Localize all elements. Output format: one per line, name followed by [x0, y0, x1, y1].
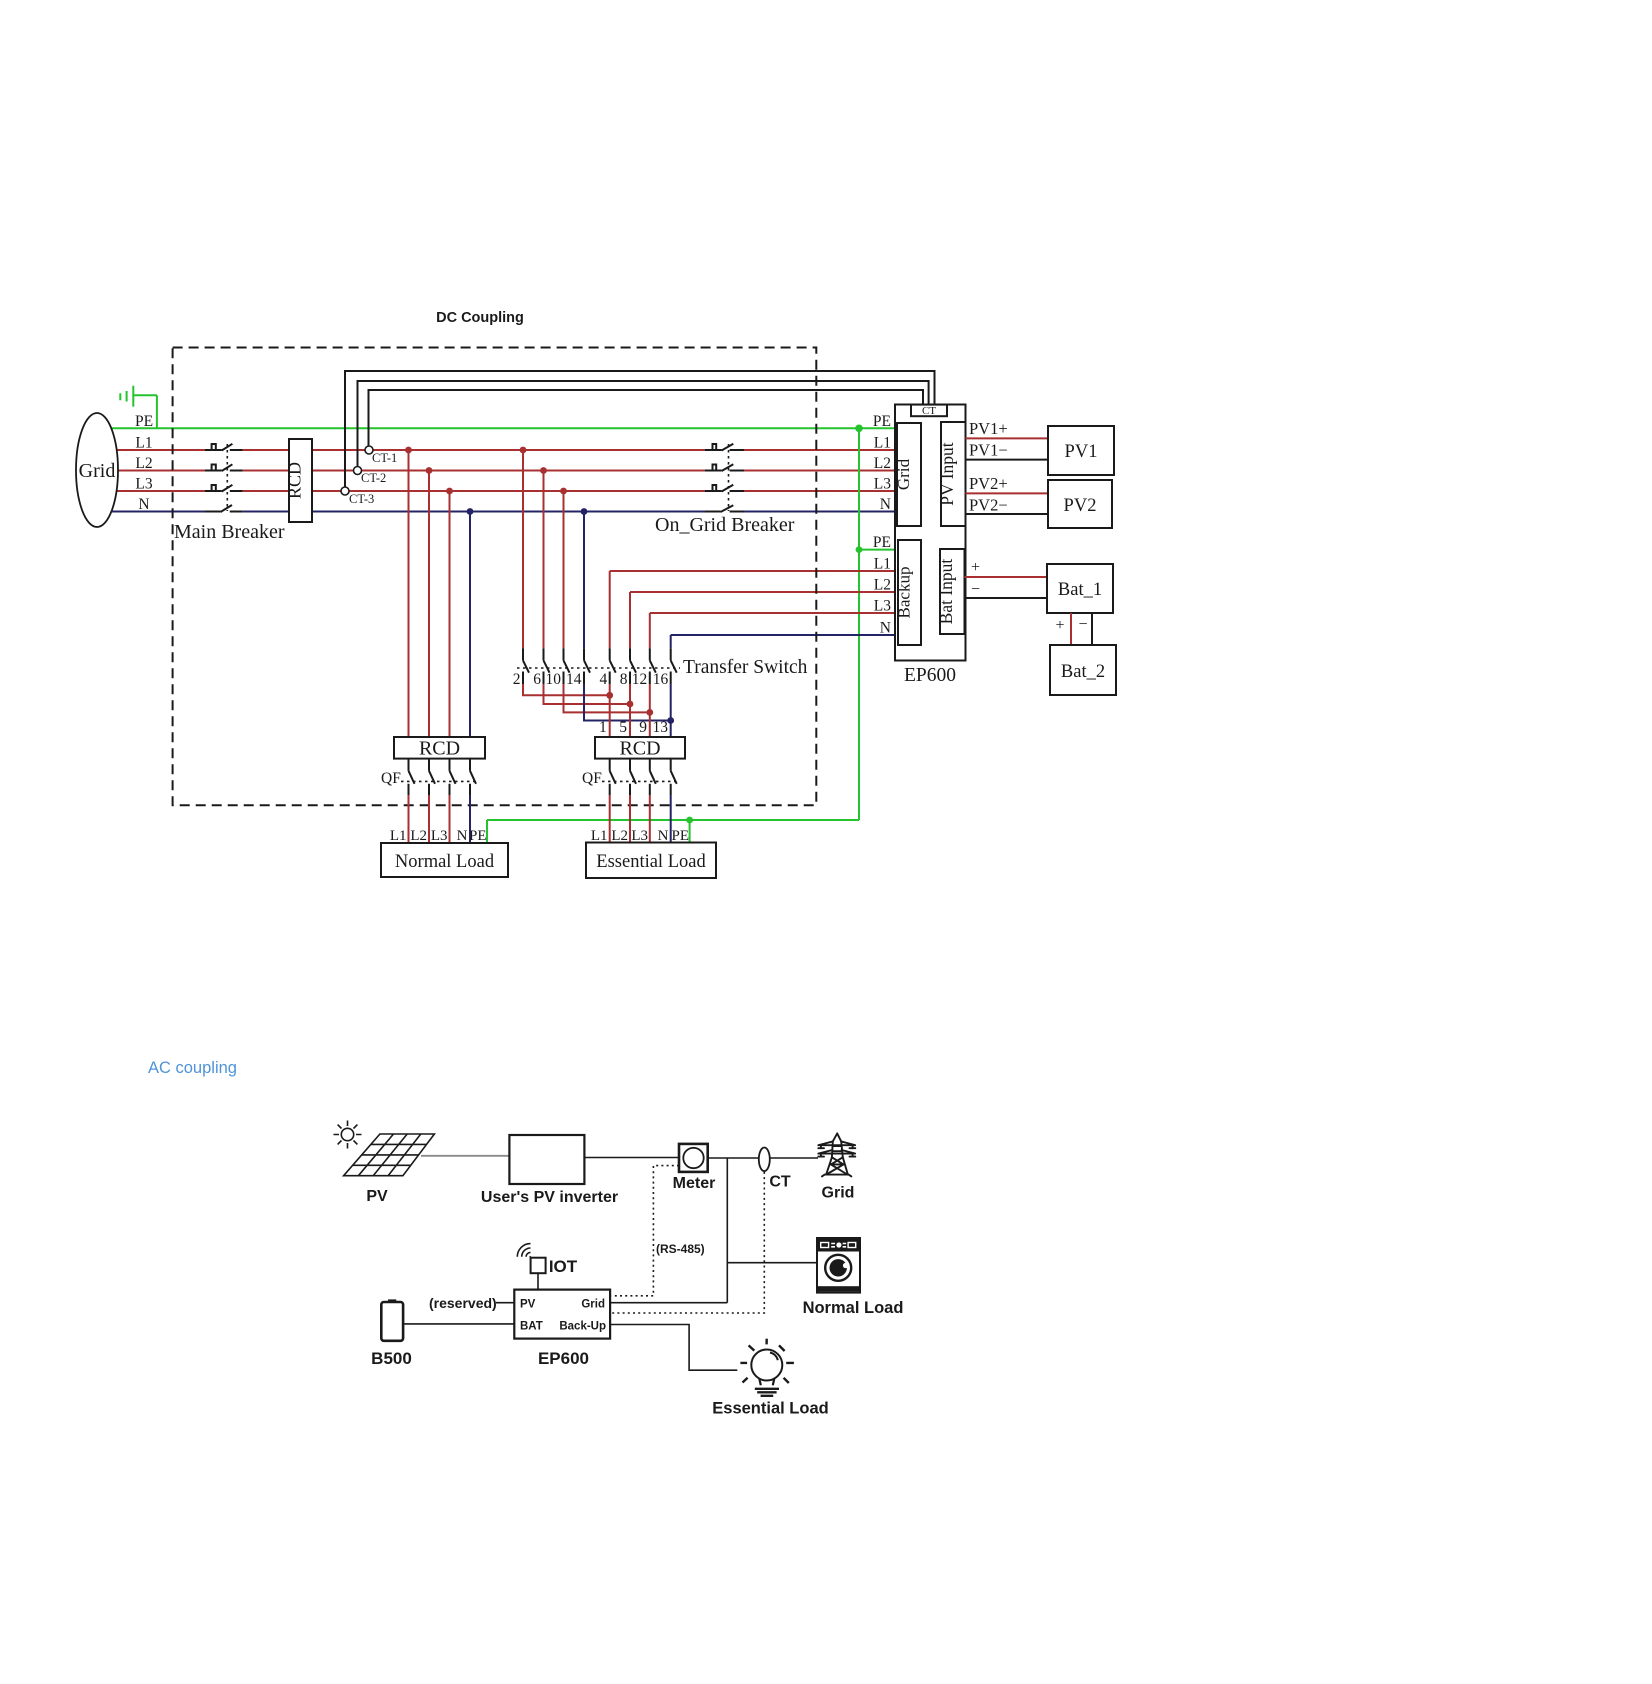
- svg-text:L1: L1: [135, 435, 152, 452]
- svg-text:13: 13: [653, 719, 669, 736]
- svg-text:PV Input: PV Input: [937, 442, 957, 506]
- svg-text:10: 10: [546, 671, 562, 688]
- svg-text:N: N: [138, 496, 149, 513]
- svg-text:L3: L3: [431, 828, 448, 844]
- svg-text:L2: L2: [410, 828, 427, 844]
- svg-text:Grid: Grid: [79, 460, 116, 482]
- svg-text:L1: L1: [874, 435, 891, 452]
- svg-text:Transfer Switch: Transfer Switch: [683, 657, 808, 678]
- svg-text:L2: L2: [874, 455, 891, 472]
- svg-text:1: 1: [599, 719, 607, 736]
- svg-text:RCD: RCD: [285, 462, 305, 499]
- svg-text:Bat_1: Bat_1: [1058, 580, 1102, 600]
- svg-text:(reserved): (reserved): [429, 1295, 497, 1311]
- svg-text:L3: L3: [135, 476, 152, 493]
- svg-text:B500: B500: [371, 1349, 412, 1368]
- svg-text:L2: L2: [874, 577, 891, 594]
- svg-text:PV: PV: [366, 1188, 388, 1205]
- svg-text:User's PV inverter: User's PV inverter: [481, 1189, 618, 1206]
- svg-text:16: 16: [653, 671, 669, 688]
- svg-text:Grid: Grid: [581, 1299, 605, 1311]
- svg-text:EP600: EP600: [904, 665, 956, 686]
- svg-text:PV1: PV1: [1065, 442, 1098, 462]
- svg-text:PE: PE: [135, 413, 153, 430]
- svg-text:L3: L3: [874, 476, 891, 493]
- svg-text:PV1+: PV1+: [969, 419, 1008, 438]
- svg-text:PV1−: PV1−: [969, 441, 1008, 460]
- svg-text:PE: PE: [873, 534, 891, 551]
- svg-text:(RS-485): (RS-485): [656, 1242, 705, 1256]
- svg-text:PE: PE: [469, 828, 487, 844]
- svg-text:CT-1: CT-1: [372, 451, 397, 465]
- svg-text:L3: L3: [874, 598, 891, 615]
- svg-text:4: 4: [599, 671, 607, 688]
- svg-text:+: +: [971, 559, 980, 576]
- svg-text:PV2+: PV2+: [969, 474, 1008, 493]
- svg-text:Normal Load: Normal Load: [395, 852, 495, 872]
- svg-text:−: −: [971, 581, 980, 598]
- svg-text:Backup: Backup: [895, 567, 914, 619]
- svg-text:CT: CT: [769, 1174, 791, 1191]
- svg-text:RCD: RCD: [419, 738, 460, 760]
- svg-text:RCD: RCD: [619, 738, 660, 760]
- svg-text:N: N: [880, 620, 891, 637]
- svg-text:L2: L2: [135, 455, 152, 472]
- svg-text:5: 5: [619, 719, 627, 736]
- svg-text:Grid: Grid: [822, 1185, 855, 1202]
- svg-text:QF: QF: [582, 770, 602, 787]
- svg-text:Main Breaker: Main Breaker: [174, 521, 285, 543]
- svg-text:−: −: [1078, 616, 1087, 633]
- svg-text:Essential Load: Essential Load: [596, 852, 706, 872]
- svg-text:PV2: PV2: [1064, 496, 1097, 516]
- svg-text:Bat Input: Bat Input: [936, 559, 956, 625]
- svg-text:IOT: IOT: [549, 1257, 578, 1276]
- svg-text:Essential Load: Essential Load: [712, 1400, 828, 1418]
- svg-text:6: 6: [533, 671, 541, 688]
- svg-text:+: +: [1055, 617, 1064, 634]
- svg-text:QF: QF: [381, 770, 401, 787]
- svg-text:AC coupling: AC coupling: [148, 1059, 237, 1077]
- svg-text:8: 8: [620, 671, 628, 688]
- svg-text:CT-2: CT-2: [361, 471, 386, 485]
- svg-text:On_Grid Breaker: On_Grid Breaker: [655, 514, 795, 536]
- svg-text:L1: L1: [874, 556, 891, 573]
- svg-text:PV2−: PV2−: [969, 495, 1008, 514]
- svg-text:N: N: [880, 496, 891, 513]
- svg-text:L1: L1: [390, 828, 407, 844]
- svg-text:PE: PE: [873, 413, 891, 430]
- svg-text:DC Coupling: DC Coupling: [436, 310, 524, 326]
- svg-text:N: N: [457, 828, 468, 844]
- svg-text:BAT: BAT: [520, 1321, 543, 1333]
- svg-text:14: 14: [566, 671, 582, 688]
- svg-text:Normal Load: Normal Load: [803, 1299, 904, 1317]
- svg-text:CT-3: CT-3: [349, 492, 374, 506]
- svg-text:12: 12: [632, 671, 648, 688]
- svg-text:9: 9: [639, 719, 647, 736]
- svg-text:PV: PV: [520, 1299, 536, 1311]
- svg-text:Meter: Meter: [673, 1175, 716, 1192]
- svg-text:CT: CT: [922, 405, 936, 417]
- svg-text:Grid: Grid: [894, 458, 913, 490]
- svg-text:2: 2: [513, 671, 521, 688]
- svg-text:Bat_2: Bat_2: [1061, 662, 1105, 682]
- svg-text:EP600: EP600: [538, 1349, 589, 1368]
- svg-text:Back-Up: Back-Up: [559, 1321, 606, 1333]
